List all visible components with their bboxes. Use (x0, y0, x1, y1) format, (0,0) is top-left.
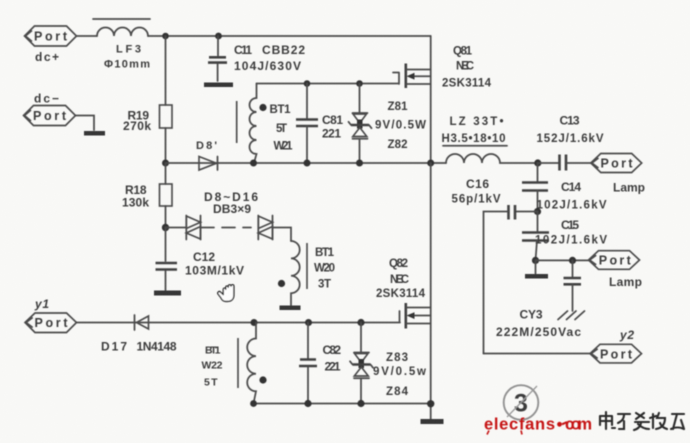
ground dc- (84, 131, 105, 136)
node junction C82 bottom (304, 400, 311, 407)
capacitor C16 (452, 177, 538, 354)
wire dc- to ground (76, 116, 95, 131)
node junction W21 bottom (250, 160, 257, 167)
port Lamp bottom (589, 251, 640, 270)
logo chinese 电子发烧友 (600, 412, 684, 430)
wire C12 column (165, 228, 167, 291)
zener Z82 (353, 128, 408, 164)
capacitor C12 (154, 250, 244, 296)
zener Z83 (350, 323, 426, 379)
node junction ground (427, 400, 434, 407)
port Lamp top (591, 154, 642, 173)
node junction C82 top (305, 319, 312, 326)
wire R19 column (165, 36, 167, 163)
node junction Z82 bottom (356, 160, 363, 167)
node junction W22 top (251, 319, 258, 326)
node junction C15 bottom (532, 257, 539, 264)
hand cursor (218, 285, 234, 302)
node junction C81 bottom (304, 160, 311, 167)
ground main (421, 419, 444, 424)
zener Z84 (354, 367, 409, 404)
resistor R18 (122, 183, 172, 210)
diac D16 right DB3 (258, 216, 272, 240)
ground C15 (535, 260, 537, 273)
wire dash segments (222, 227, 251, 229)
wire top rail (77, 35, 431, 37)
transistor Q82 2SK3114 (376, 163, 431, 419)
wire diac chain (166, 228, 292, 242)
capacitor C82 (299, 323, 341, 404)
node junction rail163 / R19-R18 (162, 160, 169, 167)
wire to Lamp bottom (536, 259, 590, 261)
port dc- (24, 106, 76, 126)
node junction W22 bottom (250, 400, 257, 407)
node junction C14/C16 (534, 208, 541, 215)
capacitor C11 (204, 36, 305, 87)
port y1 (25, 313, 77, 333)
diode D17 1N4148 (101, 315, 177, 354)
node junction C81 top (304, 80, 311, 87)
resistor R19 (123, 105, 172, 133)
transistor Q81 2SK3114 (406, 36, 492, 163)
capacitor C81 (296, 84, 343, 164)
node junction Z84 bottom (357, 400, 364, 407)
node junction diac chain (162, 224, 169, 231)
node junction LZ out (534, 159, 541, 166)
page number circled 3 (504, 385, 539, 420)
wire gate rail y322.5 (77, 311, 401, 323)
wire gate rail y83.5 (257, 73, 400, 85)
zener Z81 (349, 84, 427, 132)
wire R18 column (165, 163, 167, 228)
wire main rail y163 (166, 162, 447, 164)
winding BT1 W21 (237, 84, 293, 164)
winding BT1 W20 (278, 241, 335, 310)
capacitor C14 (522, 163, 607, 212)
diode D8' (196, 140, 218, 170)
port dc+ (25, 26, 77, 46)
node junction top rail / C11 (215, 33, 222, 40)
ground earth CY3 (558, 311, 585, 320)
node junction Q81 source / rail163 (427, 160, 434, 167)
node junction Z83 top (357, 319, 364, 326)
port y2 (590, 344, 642, 363)
diac D8 left DB3 (186, 216, 200, 240)
wire bottom rail y404 (254, 403, 431, 405)
node junction CY3 top (569, 257, 576, 264)
node junction Z81 top (356, 80, 363, 87)
inductor LZ (442, 116, 537, 163)
logo elecfans.com (484, 416, 592, 435)
capacitor CY3 (496, 260, 581, 339)
node junction top rail / R19 (162, 33, 169, 40)
inductor LF3 (93, 19, 150, 71)
capacitor C13 (537, 114, 604, 171)
capacitor C15 (522, 212, 607, 261)
wire y2 bottom (484, 353, 591, 355)
winding BT1 W22 (202, 323, 267, 404)
